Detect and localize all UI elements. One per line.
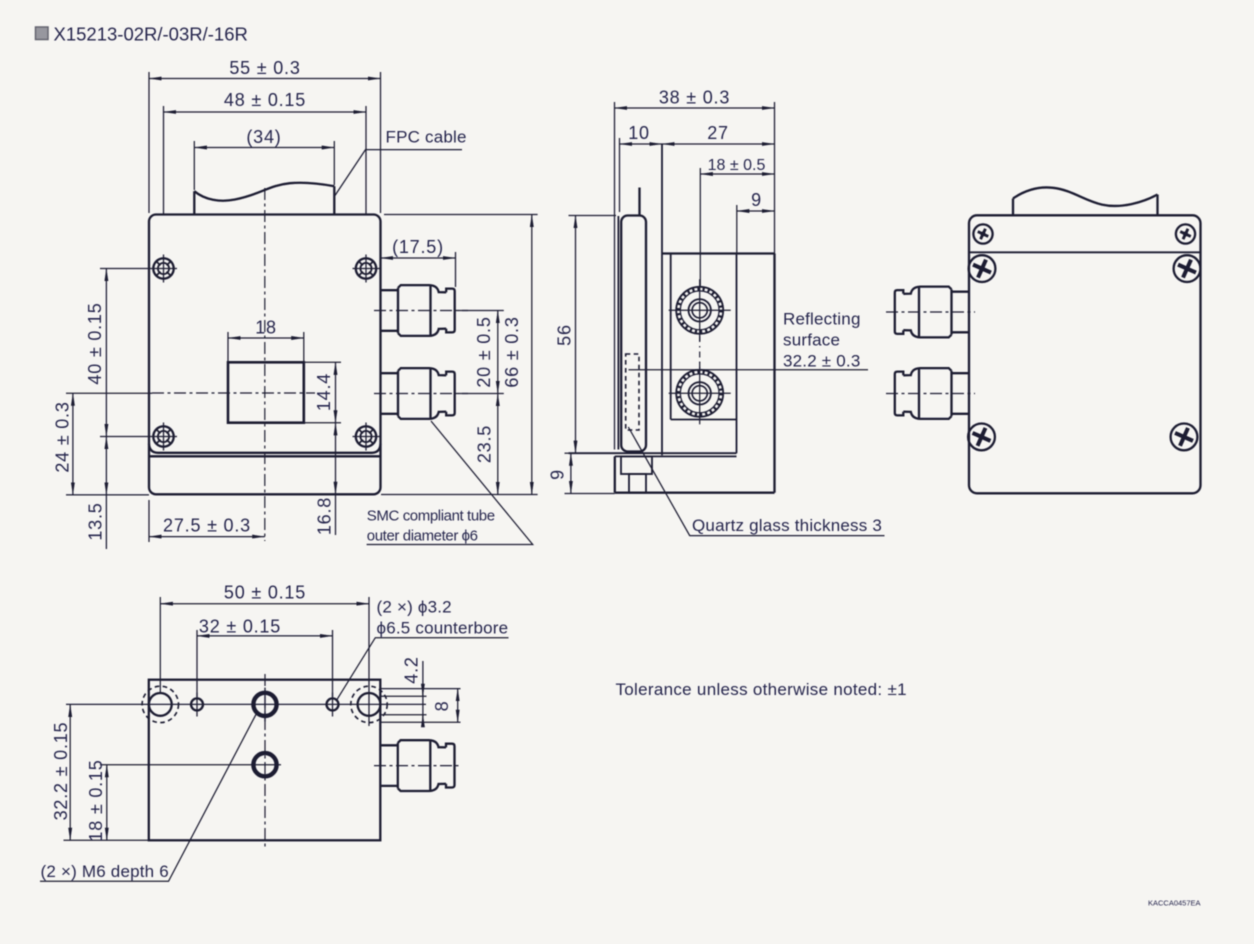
svg-text:18: 18 (255, 318, 277, 338)
pocket bottom (671, 419, 737, 421)
dim 66 extensions (384, 214, 538, 216)
svg-text:Quartz glass thickness 3: Quartz glass thickness 3 (692, 516, 882, 535)
svg-text:18 ± 0.5: 18 ± 0.5 (708, 157, 766, 174)
svg-text:9: 9 (547, 469, 567, 480)
svg-text:Reflecting: Reflecting (783, 310, 861, 329)
svg-text:27.5 ± 0.3: 27.5 ± 0.3 (163, 516, 251, 536)
svg-text:4.2: 4.2 (401, 656, 421, 683)
dim 48 extensions (163, 106, 165, 214)
svg-text:24 ± 0.3: 24 ± 0.3 (52, 401, 72, 472)
dim 32.2 extension (64, 839, 149, 841)
dim 56 extension (569, 215, 617, 217)
right view cable wavy line (1013, 187, 1158, 205)
big screw bottom-right (1171, 424, 1198, 451)
dim 9 top line (737, 210, 775, 212)
svg-text:40 ± 0.15: 40 ± 0.15 (85, 302, 105, 384)
svg-text:16.8: 16.8 (314, 497, 334, 535)
dim 55 extensions (148, 72, 150, 213)
sensor window square (228, 362, 304, 422)
dim 32 line (197, 635, 333, 637)
hole row line (66, 703, 426, 705)
M6 hole 2 (253, 753, 276, 776)
big screw top-left (969, 255, 996, 282)
right view fitting 2 centerline (886, 393, 975, 395)
svg-text:Tolerance unless otherwise not: Tolerance unless otherwise noted: ±1 (616, 680, 907, 699)
dim 34 extensions (193, 141, 195, 190)
foot block 2 (629, 474, 646, 493)
body front face line (661, 144, 663, 455)
pocket right wall + dim9 extension (736, 205, 738, 254)
dim 55 line (149, 78, 381, 80)
right view cable sides (1012, 199, 1014, 216)
svg-text:ϕ6.5 counterbore: ϕ6.5 counterbore (377, 619, 509, 638)
svg-text:KACCA0457EA: KACCA0457EA (1148, 899, 1201, 908)
small screw right (1176, 224, 1195, 243)
big screw bottom-left (968, 424, 995, 451)
dim 18 extensions (227, 332, 229, 361)
title bullet (36, 27, 49, 40)
dim 18.5 line (700, 173, 774, 175)
svg-text:X15213-02R/-03R/-16R: X15213-02R/-03R/-16R (54, 24, 248, 45)
quartz glass leader (628, 427, 884, 536)
bottom view fitting (380, 740, 454, 791)
svg-text:9: 9 (751, 190, 762, 210)
dim 50 line (160, 603, 369, 605)
dim 17.5 extension (455, 252, 457, 287)
counterbore right (351, 686, 387, 722)
horizontal centerline of square (152, 392, 315, 394)
tab line 3 (380, 714, 426, 716)
dim 50 extensions (159, 597, 161, 693)
dim 66 line (531, 215, 533, 495)
svg-text:66 ± 0.3: 66 ± 0.3 (502, 316, 522, 387)
dim 27 line (662, 143, 775, 145)
dim 10 extension (619, 138, 621, 212)
svg-text:SMC compliant tube: SMC compliant tube (367, 508, 495, 525)
dim 18.5 extension (699, 168, 701, 286)
dim 34 line (194, 147, 334, 149)
mounting hole top-right (353, 255, 380, 283)
flange left edge (614, 456, 616, 492)
glass holder cap (621, 216, 646, 452)
svg-text:50 ± 0.15: 50 ± 0.15 (224, 583, 306, 603)
front base edge line with fillets (149, 444, 381, 453)
dim 38 line (615, 107, 775, 109)
reflecting sheet inner line (617, 216, 619, 450)
dim 24 extensions (66, 392, 152, 394)
dim 32 extensions (196, 630, 198, 697)
quartz glass hidden outline (626, 354, 639, 430)
reflecting sheet outer line + dim38 extension (614, 102, 616, 450)
FPC stub (638, 188, 640, 216)
right view top strip line (969, 251, 1201, 253)
dim 13.5 tail (105, 495, 107, 549)
reflecting surface extension line (629, 369, 869, 371)
body top edge (662, 252, 775, 254)
fitting 1 front (381, 285, 455, 336)
front body outline (149, 215, 381, 495)
M6 leader (40, 713, 257, 882)
right view fitting 1 centerline (886, 311, 975, 313)
dim 14.4 extensions (304, 361, 341, 363)
svg-text:32.2 ± 0.15: 32.2 ± 0.15 (51, 722, 71, 821)
dim 40 extensions (100, 268, 150, 270)
svg-text:(2 ×) ϕ3.2: (2 ×) ϕ3.2 (377, 598, 452, 617)
dim 18 line (228, 337, 304, 339)
svg-text:surface: surface (783, 331, 840, 350)
dim 32.2 line (69, 704, 71, 840)
base mounting surface line (569, 452, 737, 454)
pocket left wall (670, 254, 672, 420)
dim 18b extension (100, 764, 281, 766)
fitting 2 centerline (374, 393, 468, 395)
dim 56 line (575, 216, 577, 454)
body bottom edge (615, 492, 775, 494)
dim 4.2 line (422, 661, 424, 726)
mounting hole top-left (150, 255, 177, 283)
dim 24 line (72, 393, 74, 495)
svg-text:32.2 ± 0.3: 32.2 ± 0.3 (783, 352, 861, 371)
dim 17.5 line (381, 257, 456, 259)
dim 20 extensions (458, 310, 504, 312)
dim 13.5 line (105, 437, 107, 495)
dim 20 line (497, 311, 499, 394)
small hole right (327, 698, 339, 710)
svg-text:55 ± 0.3: 55 ± 0.3 (229, 58, 300, 78)
svg-text:38 ± 0.3: 38 ± 0.3 (659, 88, 730, 108)
right view fitting 2 (895, 368, 969, 419)
M6 hole 1 (253, 693, 276, 716)
dim 9 bottom line (570, 453, 572, 493)
dim 16.8 tail (335, 494, 337, 535)
bottom view body (149, 680, 380, 841)
big screw top-right (1174, 255, 1201, 282)
svg-text:(17.5): (17.5) (392, 237, 444, 257)
fitting 2 front (381, 368, 455, 419)
svg-text:23.5: 23.5 (474, 425, 494, 463)
svg-text:56: 56 (554, 324, 574, 346)
base second line (615, 455, 737, 457)
foot block 1 (621, 456, 652, 474)
svg-text:14.4: 14.4 (314, 373, 334, 411)
svg-text:10: 10 (628, 123, 650, 143)
small screw left (973, 224, 992, 243)
dim 27.5 extension (148, 500, 150, 542)
mounting hole bottom-right (353, 423, 380, 451)
svg-text:18 ± 0.15: 18 ± 0.15 (86, 759, 106, 841)
centerline between ports (699, 336, 701, 368)
SMC tube leader (367, 421, 533, 545)
dim 16.8 line (335, 423, 337, 495)
dim 23.5 line (497, 394, 499, 495)
svg-text:20 ± 0.5: 20 ± 0.5 (474, 316, 494, 387)
svg-text:(34): (34) (246, 127, 281, 147)
fitting 1 centerline (374, 310, 468, 312)
phi3.2 leader (337, 638, 509, 701)
FPC cable sides (193, 191, 195, 214)
mounting hole bottom-left (150, 423, 177, 451)
svg-text:48 ± 0.15: 48 ± 0.15 (224, 90, 306, 110)
dim 14.4 line (335, 362, 337, 423)
small hole left (191, 698, 203, 710)
port circle bottom (669, 362, 731, 424)
svg-text:FPC cable: FPC cable (386, 128, 467, 147)
FPC cable wavy break line (194, 183, 334, 201)
dim 18b line (106, 765, 108, 841)
tab line 1 (380, 688, 460, 690)
front base second line (149, 455, 381, 457)
svg-text:13.5: 13.5 (85, 502, 105, 540)
dim 48 line (164, 111, 367, 113)
bottom view centerline (264, 674, 266, 848)
svg-text:27: 27 (707, 123, 729, 143)
right view body (969, 215, 1201, 493)
bottom fitting centerline (374, 765, 462, 767)
body right edge + dim38 extension (774, 102, 776, 254)
dim 40 line (105, 269, 107, 437)
dim 9 bottom extensions (565, 452, 569, 454)
tab line 4 (380, 721, 460, 723)
svg-text:32 ± 0.15: 32 ± 0.15 (199, 617, 281, 637)
tab line 2 (380, 695, 426, 697)
counterbore left (142, 686, 178, 722)
dim 10 line (620, 143, 663, 145)
FPC cable leader (334, 150, 462, 197)
right view fitting 1 (895, 287, 969, 338)
vertical centerline (264, 188, 266, 541)
svg-text:(2 ×) M6 depth 6: (2 ×) M6 depth 6 (41, 862, 169, 881)
dim 8 line (457, 689, 459, 723)
svg-text:8: 8 (432, 701, 452, 712)
port circle top (669, 279, 731, 341)
dim 27.5 line (149, 536, 265, 538)
svg-text:outer diameter ϕ6: outer diameter ϕ6 (367, 528, 478, 545)
